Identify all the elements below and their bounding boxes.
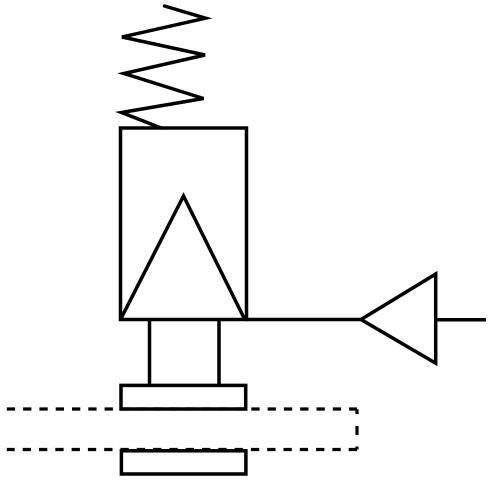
spring bbox=[122, 6, 206, 128]
pilot wire bbox=[247, 318, 363, 322]
wire right bbox=[437, 318, 486, 322]
valve body box bbox=[121, 128, 247, 320]
dashed boundary right side bbox=[355, 409, 358, 449]
stem right wall bbox=[217, 320, 221, 386]
pilot arrow triangle bbox=[361, 274, 436, 363]
upper plate bbox=[121, 385, 246, 409]
lower plate bbox=[121, 451, 245, 474]
dashed boundary bottom line bbox=[7, 448, 357, 451]
poppet triangle bbox=[121, 196, 244, 319]
dashed boundary top line bbox=[7, 407, 357, 410]
stem left wall bbox=[148, 320, 152, 386]
